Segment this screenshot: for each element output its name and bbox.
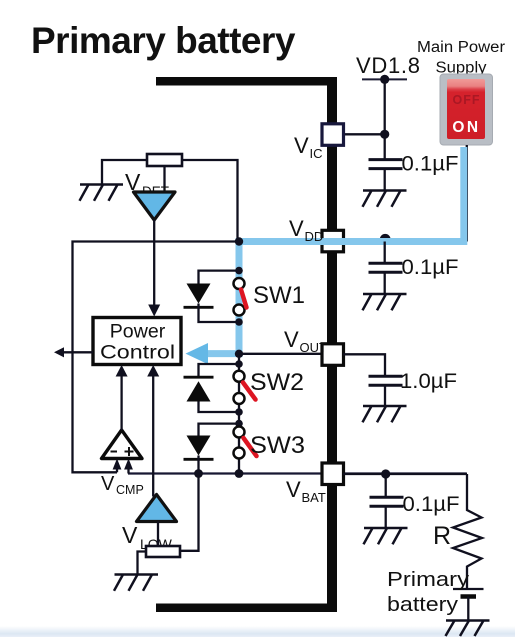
wire VIC to node [343, 133, 385, 135]
wire VBAT right [343, 473, 467, 475]
wire C2 lower [384, 272, 386, 294]
svg-text:Primary: Primary [387, 568, 470, 591]
wire RLOW left to ground [138, 552, 147, 575]
svg-text:V: V [289, 216, 304, 241]
diode D3 bottom wire [197, 456, 199, 474]
pin VBAT [322, 463, 344, 485]
svg-text:CMP: CMP [116, 483, 144, 497]
diode D2 (pointing up) [184, 376, 214, 379]
svg-text:OUT: OUT [300, 340, 328, 355]
ground G6 [364, 528, 408, 544]
switch SW3 blade (open) [244, 438, 257, 456]
comparator input arrows [116, 466, 118, 472]
wire VD1.8 stem [384, 79, 386, 159]
comparator UCMP triangle [102, 430, 143, 459]
diode D3 [187, 436, 211, 456]
switch SW2 contacts [234, 371, 245, 382]
switch SW1 blade [241, 290, 247, 308]
pin VDD junction dot [380, 234, 391, 245]
wire C1 lower [384, 169, 386, 191]
wire RDET left [102, 160, 147, 185]
svg-text:OFF: OFF [453, 93, 481, 107]
node SW1/VOUT corner dot [235, 350, 243, 358]
diode D3 top wire [199, 424, 240, 436]
arrow into Power Control top [148, 305, 160, 317]
svg-text:0.1µF: 0.1µF [403, 492, 460, 516]
wire battery to ground [467, 597, 469, 621]
pin VOUT [322, 344, 344, 366]
wire C4 upper [385, 474, 387, 497]
wire C4 lower [385, 506, 387, 528]
svg-text:V: V [286, 477, 301, 502]
main power switch frame [440, 74, 493, 145]
resistor RDET top [147, 154, 182, 166]
node VDD-left junction dot [235, 237, 243, 245]
svg-text:0.1µF: 0.1µF [402, 152, 459, 176]
node VBAT junction dot [381, 469, 390, 478]
svg-text:VD1.8: VD1.8 [356, 53, 420, 78]
pin VIC [322, 124, 344, 146]
wire VD1.8 crossbar [362, 78, 407, 80]
ground G3 [80, 185, 124, 201]
diode D1 [187, 284, 211, 304]
wire VLOW to resistor [157, 522, 159, 547]
wire C2 upper [384, 242, 386, 264]
comparator output wire up [120, 375, 122, 431]
node dots D2 [235, 360, 243, 368]
svg-text:battery: battery [387, 593, 459, 616]
svg-text:R: R [433, 522, 451, 550]
svg-text:ON: ON [452, 119, 480, 136]
IC top bar [156, 77, 336, 86]
power control box [93, 318, 181, 365]
ground G1 [363, 191, 407, 207]
svg-text:Control: Control [100, 342, 175, 364]
wire VDD node to comparator (left rail) [73, 242, 240, 473]
node VD1.8 dot [380, 75, 389, 84]
svg-text:SW1: SW1 [253, 282, 305, 309]
battery B1 plates [453, 588, 484, 590]
svg-text:Main Power: Main Power [417, 39, 505, 56]
wire arrow out left [62, 351, 93, 353]
capacitor C4 0.1uF plates [370, 497, 404, 506]
svg-text:BAT: BAT [302, 490, 326, 505]
op-amp VLOW triangle [137, 495, 177, 522]
pin VDD [322, 230, 344, 252]
wire blue highlight VDD path [198, 147, 464, 354]
svg-text:V: V [284, 327, 299, 352]
diode D1 top wire [199, 271, 240, 284]
capacitor C2 0.1uF plates [369, 263, 403, 272]
wire VDET output down [153, 220, 155, 306]
svg-text:V: V [294, 133, 309, 158]
diode D1 bottom wire [199, 304, 240, 323]
ground G7 [446, 621, 490, 637]
wire RLOW right up to rail [180, 474, 199, 551]
svg-text:Primary battery: Primary battery [31, 20, 296, 61]
svg-text:Power: Power [110, 321, 166, 343]
ground G2 [363, 294, 407, 310]
ground G4 [114, 575, 158, 591]
wire RDET to VDET [163, 166, 165, 192]
svg-text:V: V [122, 522, 138, 548]
svg-text:DD: DD [305, 229, 324, 244]
resistor R zigzag [453, 474, 482, 589]
bottom band [0, 626, 515, 637]
wire switch down (black under) [466, 145, 468, 242]
capacitor C3 1.0uF plates [369, 376, 403, 385]
comparator minus [111, 451, 118, 453]
op-amp VDET triangle [134, 192, 176, 220]
switch SW1 contacts [234, 278, 245, 289]
wire SW1 bottom to VOUT pin [239, 353, 322, 355]
svg-text:1.0µF: 1.0µF [400, 369, 457, 393]
switch SW3 contacts [234, 427, 245, 438]
switch SW2 blade (open) [243, 383, 256, 400]
node VIC junction dot [380, 130, 389, 139]
wire bottom rail VBAT [128, 472, 467, 474]
ground G5 [363, 406, 407, 422]
diode D2 bottom wire [199, 402, 240, 413]
svg-text:SW2: SW2 [250, 369, 304, 396]
node dots D1 [235, 267, 243, 275]
diode D2 top wire [199, 364, 240, 377]
wire C3 lower [384, 385, 386, 406]
svg-text:0.1µF: 0.1µF [402, 255, 459, 279]
resistor RLOW [146, 546, 180, 557]
svg-text:SW3: SW3 [250, 432, 305, 459]
blue arrowhead into Power Control [186, 343, 209, 364]
IC bottom bar [156, 604, 336, 613]
IC right bus [327, 77, 337, 612]
svg-text:IC: IC [310, 146, 323, 161]
comparator plus [125, 451, 134, 453]
node dots bottom rail [194, 469, 203, 478]
wire RDET right to VDD node [182, 160, 238, 242]
switch chain spine wire [238, 242, 240, 474]
main power switch red rocker [447, 79, 485, 139]
svg-text:V: V [101, 473, 115, 495]
wire VLOW output up [152, 375, 154, 497]
wire VOUT to C3 [343, 354, 385, 376]
node dots D3 [235, 420, 243, 428]
capacitor C1 0.1uF plates [369, 160, 403, 169]
